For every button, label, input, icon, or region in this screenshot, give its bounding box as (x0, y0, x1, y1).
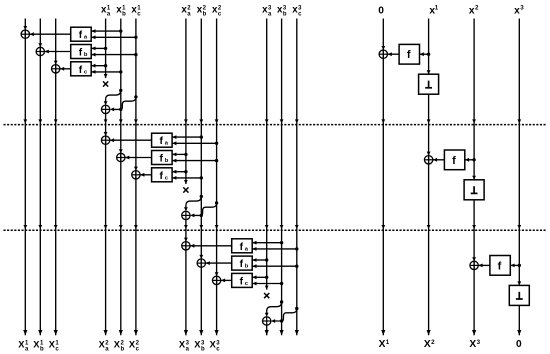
wire f_c round 1 output to XOR (60, 67, 71, 71)
label x^3 (top right) (514, 4, 524, 16)
junction dot x_a^1 upper tap (104, 47, 107, 50)
junction dot x_b^2 lower tap (200, 176, 203, 179)
function block f_a round 1 (71, 27, 92, 41)
XOR gate round 2 stage a (101, 136, 109, 144)
wire f output to XOR right stage 3 (478, 264, 490, 268)
label x_c^3 (292, 4, 302, 17)
svg-text:b: b (84, 52, 88, 58)
label X_b^1 (33, 339, 44, 352)
wire x_b^1 (message line b / output X2b) (119, 19, 123, 336)
wire tap x_c^3 to f_a (lower input) (252, 247, 297, 251)
wire chain-b (output X1b) (38, 19, 42, 336)
wire x_b^3 (message line b / output X4b) (280, 19, 284, 336)
junction dot x_b^3 lower tap (280, 282, 283, 285)
svg-text:f: f (79, 65, 83, 76)
wire tap x^1 to f right stage 1 (420, 52, 429, 56)
svg-text:b: b (122, 12, 126, 18)
wire merge branch x_b^3 to combiner top (265, 302, 282, 317)
label x_b^1 (116, 4, 126, 17)
svg-text:1: 1 (435, 4, 439, 11)
svg-text:1: 1 (386, 339, 390, 346)
wire tap x_b^3 to f_a (upper input) (252, 241, 281, 245)
function block f right stage 2 (444, 150, 464, 170)
label X_c^3 (210, 339, 221, 352)
svg-text:f: f (498, 260, 502, 272)
wire tap x_c^2 to f_b (lower input) (172, 159, 217, 163)
svg-text:2: 2 (431, 339, 435, 346)
svg-text:X: X (379, 339, 386, 350)
label x_a^1 (101, 4, 111, 17)
svg-text:b: b (201, 347, 205, 353)
function block f_b round 2 (152, 151, 173, 165)
svg-text:2: 2 (475, 4, 479, 11)
wire tap x_a^2 to f_c (upper input) (172, 170, 186, 174)
discard mark x_a^3 (264, 293, 269, 298)
round separator line 2 (dashed) (4, 229, 547, 231)
svg-text:b: b (40, 347, 44, 353)
junction dot x^3 tap (518, 264, 521, 267)
label X_a^3 (179, 339, 190, 352)
junction dot x_b^2 upper tap (200, 135, 203, 138)
junction dot x_c^1 lower tap (134, 53, 137, 56)
label X^1 (bottom right) (379, 339, 390, 350)
wire tap x_c^1 to f_b (lower input) (91, 53, 136, 57)
wire tap x_b^2 to f_c (lower input) (172, 176, 201, 180)
svg-text:3: 3 (520, 4, 524, 11)
wire f_a round 1 output to XOR (30, 32, 71, 36)
label x^1 (top right) (429, 4, 438, 16)
XOR gate round 3 stage c (212, 276, 220, 284)
wire tap x_c^2 to f_a (lower input) (172, 141, 217, 145)
wire combiner output (X2a / chain a of round 2) (104, 114, 108, 336)
XOR gate round 1 stage b (36, 47, 44, 55)
wire x_b^2 (message line b / output X3b) (199, 19, 203, 336)
junction dot x^2 tap (472, 158, 475, 161)
junction dot x_c^1 lower tap (134, 36, 137, 39)
svg-text:0: 0 (378, 6, 384, 17)
wire chain-c (output X1c) (54, 19, 58, 336)
wire x_a^1 (message line a) (104, 19, 108, 79)
function block f right stage 3 (490, 256, 510, 276)
discard mark x_a^1 (103, 81, 108, 86)
label x_a^2 (181, 4, 191, 17)
wire x_c^2 (message line c / output X3c) (215, 19, 219, 336)
wire tap x_c^1 to f_a (lower input) (91, 35, 136, 39)
svg-text:f: f (240, 259, 244, 270)
wire merge branch x_c^3 to combiner right (271, 309, 297, 323)
wire x_c^3 (message line c / output X4c) (295, 19, 299, 336)
label 0 (top right) (378, 6, 384, 17)
junction dot x_b^1 at merge (119, 89, 122, 92)
junction dot x_b^2 at merge (200, 195, 203, 198)
wire combiner output (X3a / chain a of round 3) (184, 220, 188, 336)
svg-text:f: f (159, 154, 163, 165)
svg-text:b: b (165, 158, 169, 164)
label X_b^2 (114, 339, 125, 352)
junction dot x_b^1 upper tap (119, 29, 122, 32)
label X_b^3 (194, 339, 205, 352)
svg-text:f: f (159, 136, 163, 147)
function block f right stage 1 (399, 44, 419, 64)
XOR gate round 3 stage b (197, 259, 205, 267)
junction dot x_b^2 line crossing combiner input (200, 214, 203, 217)
wire tap x_a^3 to f_b (upper input) (252, 258, 267, 262)
svg-text:f: f (79, 48, 83, 59)
wire tap x_b^3 to f_c (lower input) (252, 282, 281, 286)
wire f_c round 2 output to XOR (140, 173, 152, 177)
wire f_b round 1 output to XOR (45, 50, 71, 54)
junction dot x_c^3 at merge (295, 307, 298, 310)
wire chain-a (output X1a) (23, 19, 27, 336)
function block f_b round 3 (232, 256, 253, 270)
function block f_c round 1 (71, 62, 92, 76)
XOR combiner after round 1 (101, 105, 109, 113)
wire merge branch x_b^1 to combiner top (104, 90, 121, 105)
junction dot x_c^2 lower tap (215, 142, 218, 145)
svg-text:f: f (240, 242, 244, 253)
wire x^1 (right diagram) (427, 19, 431, 336)
wire f_b round 3 output to XOR (206, 261, 232, 265)
label 0 (bottom right) (516, 339, 522, 350)
label X_c^2 (129, 339, 140, 352)
wire merge branch x_b^2 to combiner top (184, 196, 201, 211)
junction dot x_c^2 at merge (215, 201, 218, 204)
label x_c^2 (212, 4, 222, 17)
svg-text:f: f (452, 155, 456, 167)
wire combiner output (X4a / chain a of round 4) (265, 325, 269, 335)
XOR gate round 1 stage c (52, 65, 60, 73)
wire x_a^3 (message line a) (265, 19, 269, 290)
function block f_b round 1 (71, 45, 92, 59)
discard block (bottom) stage 2 (464, 180, 484, 200)
wire tap x^2 to f right stage 2 (465, 158, 474, 162)
label X^2 (bottom right) (424, 339, 435, 350)
junction dot x^1 tap (427, 53, 430, 56)
wire f output to XOR right stage 2 (433, 158, 445, 162)
wire x^2 (right diagram) (472, 19, 476, 336)
round separator line 1 (dashed) (4, 124, 547, 126)
wire tap x^3 to f right stage 3 (510, 264, 519, 268)
wire acc-0 (input 0, output X1) (381, 19, 385, 336)
XOR combiner after round 2 (182, 211, 190, 219)
wire f_a round 2 output to XOR (110, 138, 152, 142)
junction dot x_b^3 line crossing combiner input (280, 319, 283, 322)
wire x_c^1 (message line c / output X2c) (134, 19, 138, 336)
label X_c^1 (49, 339, 60, 352)
function block f_a round 3 (232, 239, 253, 253)
wire tap x_a^1 to f_c (upper input) (91, 64, 105, 68)
wire f output to XOR right stage 1 (388, 52, 400, 56)
wire x_a^2 (message line a) (184, 19, 188, 185)
function block f_c round 2 (152, 168, 173, 182)
wire tap x_b^1 to f_a (upper input) (91, 29, 121, 33)
junction dot x_a^3 upper tap (265, 258, 268, 261)
junction dot x_c^1 at merge (134, 95, 137, 98)
junction dot x_b^3 upper tap (280, 241, 283, 244)
wire tap x_c^3 to f_b (lower input) (252, 264, 297, 268)
XOR gate round 2 stage b (117, 153, 125, 161)
svg-text:f: f (79, 30, 83, 41)
wire tap x_b^2 to f_a (upper input) (172, 135, 201, 139)
svg-text:b: b (245, 264, 249, 270)
wire f_b round 2 output to XOR (125, 156, 152, 160)
junction dot x_c^3 lower tap (295, 247, 298, 250)
wire tap x_b^1 to f_c (lower input) (91, 70, 121, 74)
label X_a^1 (18, 339, 29, 352)
wire f_a round 3 output to XOR (190, 244, 232, 248)
junction dot x_b^1 line crossing combiner input (119, 108, 122, 111)
XOR gate round 1 stage a (21, 30, 29, 38)
discard block (bottom) stage 3 (509, 285, 529, 305)
label x^2 (top right) (469, 4, 479, 16)
svg-text:X: X (424, 339, 431, 350)
label X_a^2 (99, 339, 110, 352)
svg-text:f: f (407, 49, 411, 61)
XOR combiner after round 3 (263, 317, 271, 325)
label x_a^3 (262, 4, 272, 17)
junction dot x_c^2 lower tap (215, 159, 218, 162)
wire x^3 (right diagram) (517, 19, 521, 336)
svg-text:f: f (240, 276, 244, 287)
svg-text:b: b (203, 12, 207, 18)
svg-text:b: b (283, 12, 287, 18)
svg-text:3: 3 (477, 339, 481, 346)
label x_b^2 (197, 4, 207, 17)
XOR gate round 3 stage a (182, 242, 190, 250)
svg-text:X: X (469, 339, 476, 350)
junction dot x_b^3 at merge (280, 300, 283, 303)
XOR gate right stage 2 (424, 156, 432, 164)
junction dot x_b^1 lower tap (119, 70, 122, 73)
svg-text:f: f (159, 171, 163, 182)
wire tap x_a^3 to f_c (upper input) (252, 275, 267, 279)
wire tap x_a^1 to f_b (upper input) (91, 47, 105, 51)
function block f_a round 2 (152, 133, 173, 147)
label x_b^3 (277, 4, 287, 17)
label X^3 (bottom right) (469, 339, 480, 350)
wire merge branch x_c^1 to combiner right (110, 97, 136, 111)
junction dot x_a^1 upper tap (104, 64, 107, 67)
wire tap x_a^2 to f_b (upper input) (172, 153, 186, 157)
svg-text:0: 0 (516, 339, 522, 350)
svg-text:b: b (121, 347, 125, 353)
function block f_c round 3 (232, 273, 253, 287)
junction dot x_a^2 upper tap (184, 153, 187, 156)
wire f_c round 3 output to XOR (221, 279, 232, 283)
junction dot x_c^3 lower tap (295, 265, 298, 268)
discard mark x_a^2 (183, 187, 188, 192)
label x_c^1 (131, 4, 141, 17)
XOR gate right stage 3 (470, 261, 478, 269)
XOR gate round 2 stage c (132, 171, 140, 179)
wire merge branch x_c^2 to combiner right (190, 203, 217, 217)
XOR gate right stage 1 (379, 50, 387, 58)
junction dot x_a^2 upper tap (184, 170, 187, 173)
discard block (bottom) stage 1 (419, 74, 439, 94)
junction dot x_a^3 upper tap (265, 276, 268, 279)
